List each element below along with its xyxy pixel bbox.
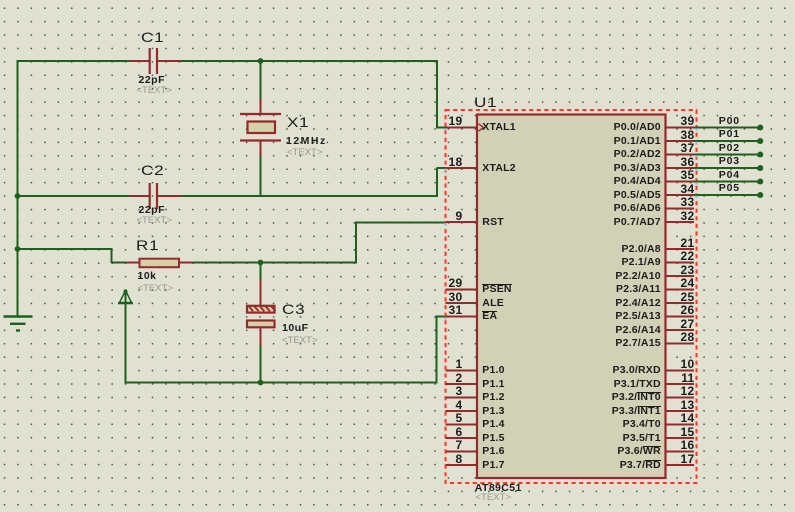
- junction: left rail / R1 branch: [15, 246, 21, 252]
- pin number 26: [665, 304, 695, 316]
- pin label PSEN: [482, 284, 511, 295]
- pin label P1.4: [482, 419, 504, 430]
- wire: C2 row left segment: [17, 195, 131, 197]
- wire: into EA pin: [437, 316, 447, 318]
- pin 17 (P3.7/|RD) stub: [666, 464, 694, 466]
- pin 9 (RST) stub: [446, 221, 478, 223]
- junction: R1 output / C3 top: [258, 260, 264, 266]
- pin 36 (P0.3/AD3) stub: [666, 167, 694, 169]
- pin label P3.5/T1: [461, 433, 661, 444]
- pin 25 (P2.4/A12) stub: [666, 302, 694, 304]
- wire: top-left corner horizontal (OSC1 net): [17, 60, 131, 62]
- wire: P05 net: [694, 194, 760, 196]
- crystal X1 bottom plate: [240, 139, 281, 141]
- pin label P0.5/AD5: [461, 190, 661, 201]
- wire: P02 net: [694, 154, 760, 156]
- node label P04: [719, 170, 740, 181]
- power terminal arrow: [120, 291, 132, 303]
- pin label P2.3/A11: [461, 284, 661, 295]
- pin 14 (P3.4/T0) stub: [666, 424, 694, 426]
- pin 6 (P1.5) stub: [446, 437, 478, 439]
- label R1 value: [138, 271, 157, 282]
- terminal dot P05: [757, 192, 763, 198]
- capacitor C2 plates: [149, 183, 151, 209]
- pin number 27: [665, 318, 695, 330]
- pin label P3.4/T0: [461, 419, 661, 430]
- pin label P0.2/AD2: [461, 149, 661, 160]
- pin 7 (P1.6) stub: [446, 451, 478, 453]
- pin number 8: [433, 453, 463, 465]
- pin label P0.4/AD4: [461, 176, 661, 187]
- pin number 28: [665, 331, 695, 343]
- pin label P2.4/A12: [461, 298, 661, 309]
- junction: left rail / C2 row: [15, 193, 21, 199]
- pin number 25: [665, 291, 695, 303]
- pin number 36: [665, 156, 695, 168]
- pin label P1.2: [482, 392, 504, 403]
- pin 11 (P3.1/TXD) stub: [666, 383, 694, 385]
- wire: vertical drop into XTAL1: [436, 60, 438, 129]
- pin label P0.1/AD1: [461, 136, 661, 147]
- terminal dot P01: [757, 138, 763, 144]
- pin 16 (P3.6/|WR) stub: [666, 451, 694, 453]
- pin 34 (P0.5/AD5) stub: [666, 194, 694, 196]
- pin 33 (P0.6/AD6) stub: [666, 208, 694, 210]
- label R1 ref: [136, 238, 159, 252]
- pin number 11: [665, 372, 695, 384]
- pin number 37: [665, 142, 695, 154]
- pin label P0.7/AD7: [461, 217, 661, 228]
- pin label P2.2/A10: [461, 271, 661, 282]
- wire: into R1 left lead: [112, 262, 127, 264]
- U1 selection dashed box: [446, 110, 697, 483]
- XTAL1 clock arrowhead: [479, 124, 484, 131]
- pin number 10: [665, 358, 695, 370]
- pin 28 (P2.7/A15) stub: [666, 343, 694, 345]
- pin label P1.1: [482, 379, 504, 390]
- pin label P1.0: [482, 365, 504, 376]
- wire: P00 net: [694, 127, 760, 129]
- node label P03: [719, 156, 740, 167]
- pin number 17: [665, 453, 695, 465]
- pin number 16: [665, 439, 695, 451]
- pin 13 (P3.3/|INT1) stub: [666, 410, 694, 412]
- label C3 text: [282, 336, 317, 346]
- node label P05: [719, 183, 740, 194]
- pin number 1: [433, 358, 463, 370]
- terminal dot P02: [757, 152, 763, 158]
- pin number 23: [665, 264, 695, 276]
- pin number 38: [665, 129, 695, 141]
- capacitor C3 bottom lead: [260, 329, 262, 347]
- wire: short stub to XTAL2 pin: [437, 167, 446, 169]
- pin number 21: [665, 237, 695, 249]
- wire: crystal bottom connection: [260, 142, 262, 196]
- pin number 39: [665, 115, 695, 127]
- capacitor C3 top plate (hatched): [247, 306, 275, 313]
- pin number 12: [665, 385, 695, 397]
- pin 10 (P3.0/RXD) stub: [666, 370, 694, 372]
- pin number 29: [433, 277, 463, 289]
- pin 26 (P2.5/A13) stub: [666, 316, 694, 318]
- wire: short stub to XTAL1 pin: [437, 127, 446, 129]
- wire: vertical rise to EA row: [436, 316, 438, 384]
- pin 22 (P2.1/A9) stub: [666, 262, 694, 264]
- pin 2 (P1.1) stub: [446, 383, 478, 385]
- label U1 text: [476, 493, 511, 503]
- pin number 3: [433, 385, 463, 397]
- pin label P0.0/AD0: [461, 122, 661, 133]
- pin label P3.0/RXD: [461, 365, 661, 376]
- pin 35 (P0.4/AD4) stub: [666, 181, 694, 183]
- pin 30 (ALE) stub: [446, 302, 478, 304]
- junction: C3 bottom / ground net: [258, 380, 264, 386]
- junction: crystal top / C1 net: [258, 58, 264, 64]
- pin number 31: [433, 304, 463, 316]
- pin number 19: [433, 115, 463, 127]
- capacitor C3 bottom plate: [247, 321, 275, 328]
- wire: branch to R1 step-down: [111, 248, 113, 263]
- terminal dot P03: [757, 165, 763, 171]
- pin label P2.7/A15: [461, 338, 661, 349]
- capacitor C1 plates: [149, 48, 151, 74]
- pin 32 (P0.7/AD7) stub: [666, 221, 694, 223]
- pin number 15: [665, 426, 695, 438]
- pin 5 (P1.4) stub: [446, 424, 478, 426]
- label R1 text: [138, 284, 173, 294]
- wire: power-arrow terminal vertical: [125, 291, 127, 383]
- wire: vertical rise into XTAL2: [436, 168, 438, 197]
- pin number 30: [433, 291, 463, 303]
- pin number 33: [665, 196, 695, 208]
- pin number 14: [665, 412, 695, 424]
- wire: P01 net: [694, 140, 760, 142]
- pin label P3.3/INT1: [461, 406, 661, 417]
- crystal X1 top plate: [240, 113, 281, 115]
- crystal X1 body: [248, 122, 276, 134]
- pin label XTAL2: [482, 163, 515, 174]
- wire: C2 row right segment: [181, 195, 439, 197]
- pin 15 (P3.5/T1) stub: [666, 437, 694, 439]
- resistor R1 leads: [126, 262, 139, 264]
- wire: R1 output to RST column: [193, 262, 358, 264]
- node label P01: [719, 129, 740, 140]
- wire: C3 bottom to ground net: [260, 345, 262, 383]
- pin label P0.3/AD3: [461, 163, 661, 174]
- pin number 9: [433, 210, 463, 222]
- pin 38 (P0.1/AD1) stub: [666, 140, 694, 142]
- pin label P3.6/WR: [461, 446, 661, 457]
- pin label XTAL1: [482, 122, 515, 133]
- pin 4 (P1.3) stub: [446, 410, 478, 412]
- pin number 6: [433, 426, 463, 438]
- label X1 value: [286, 136, 327, 147]
- pin label P1.5: [482, 433, 504, 444]
- wire: crystal top connection: [260, 61, 262, 100]
- label C2 text: [137, 216, 172, 226]
- pin label EA: [482, 311, 497, 322]
- pin number 35: [665, 169, 695, 181]
- pin label RST: [482, 217, 504, 228]
- node label P00: [719, 116, 740, 127]
- pin 23 (P2.2/A10) stub: [666, 275, 694, 277]
- pin label P2.1/A9: [461, 257, 661, 268]
- label C2 value: [139, 205, 166, 216]
- pin label P3.2/INT0: [461, 392, 661, 403]
- terminal dot P04: [757, 179, 763, 185]
- pin label P3.7/RD: [461, 460, 661, 471]
- wire: into RST pin: [356, 222, 446, 224]
- pin label ALE: [482, 298, 504, 309]
- capacitor C1 leads: [130, 60, 150, 62]
- pin 1 (P1.0) stub: [446, 370, 478, 372]
- pin 21 (P2.0/A8) stub: [666, 248, 694, 250]
- pin number 4: [433, 399, 463, 411]
- wire: P03 net: [694, 167, 760, 169]
- pin 37 (P0.2/AD2) stub: [666, 154, 694, 156]
- pin label P2.0/A8: [461, 244, 661, 255]
- pin 27 (P2.6/A14) stub: [666, 329, 694, 331]
- label U1 value: [475, 483, 522, 494]
- terminal dot P00: [757, 125, 763, 131]
- crystal X1 top lead: [260, 99, 262, 113]
- pin 3 (P1.2) stub: [446, 397, 478, 399]
- label C1 text: [137, 86, 172, 96]
- pin label P1.7: [482, 460, 504, 471]
- pin 12 (P3.2/|INT0) stub: [666, 397, 694, 399]
- pin 18 (XTAL2) stub: [446, 167, 478, 169]
- pin number 7: [433, 439, 463, 451]
- pin 19 (XTAL1) stub: [446, 127, 478, 129]
- label X1 ref: [287, 115, 309, 129]
- pin label P0.6/AD6: [461, 203, 661, 214]
- pin number 32: [665, 210, 695, 222]
- label U1 ref: [474, 95, 497, 109]
- wire: P04 net: [694, 181, 760, 183]
- capacitor C3 top lead: [260, 280, 262, 305]
- pin label P2.6/A14: [461, 325, 661, 336]
- pin number 13: [665, 399, 695, 411]
- label X1 text: [287, 148, 322, 158]
- crystal X1 bottom lead: [260, 142, 262, 157]
- wire: vertical rise to RST row: [355, 222, 357, 264]
- wire: branch to R1 horizontal: [17, 248, 113, 250]
- node label P02: [719, 143, 740, 154]
- wire: left vertical rail down to ground: [17, 60, 19, 317]
- ground symbol: [4, 315, 33, 317]
- pin label P1.3: [482, 406, 504, 417]
- pin label P2.5/A13: [461, 311, 661, 322]
- label C3 ref: [282, 302, 305, 316]
- pin 31 (EA) stub: [446, 316, 478, 318]
- pin number 22: [665, 250, 695, 262]
- label C3 value: [282, 323, 309, 334]
- pin 24 (P2.3/A11) stub: [666, 289, 694, 291]
- pin number 2: [433, 372, 463, 384]
- pin label P3.1/TXD: [461, 379, 661, 390]
- pin number 34: [665, 183, 695, 195]
- resistor R1 body: [140, 259, 180, 268]
- pin 29 (PSEN) stub: [446, 289, 478, 291]
- label C2 ref: [141, 163, 164, 177]
- pin label P1.6: [482, 446, 504, 457]
- label C1 ref: [141, 30, 164, 44]
- pin 39 (P0.0/AD0) stub: [666, 127, 694, 129]
- pin number 18: [433, 156, 463, 168]
- capacitor C2 leads: [130, 195, 150, 197]
- wire: C3 top connection: [260, 263, 262, 282]
- pin 8 (P1.7) stub: [446, 464, 478, 466]
- selection-box wire crossing ticks: [695, 128, 697, 130]
- pin number 24: [665, 277, 695, 289]
- wire: top horizontal from C1 to chip column: [181, 60, 439, 62]
- label C1 value: [139, 75, 166, 86]
- op: U1 AT89C51 chip body: [477, 115, 666, 479]
- pin number 5: [433, 412, 463, 424]
- wire: bottom ground-net horizontal: [125, 382, 438, 384]
